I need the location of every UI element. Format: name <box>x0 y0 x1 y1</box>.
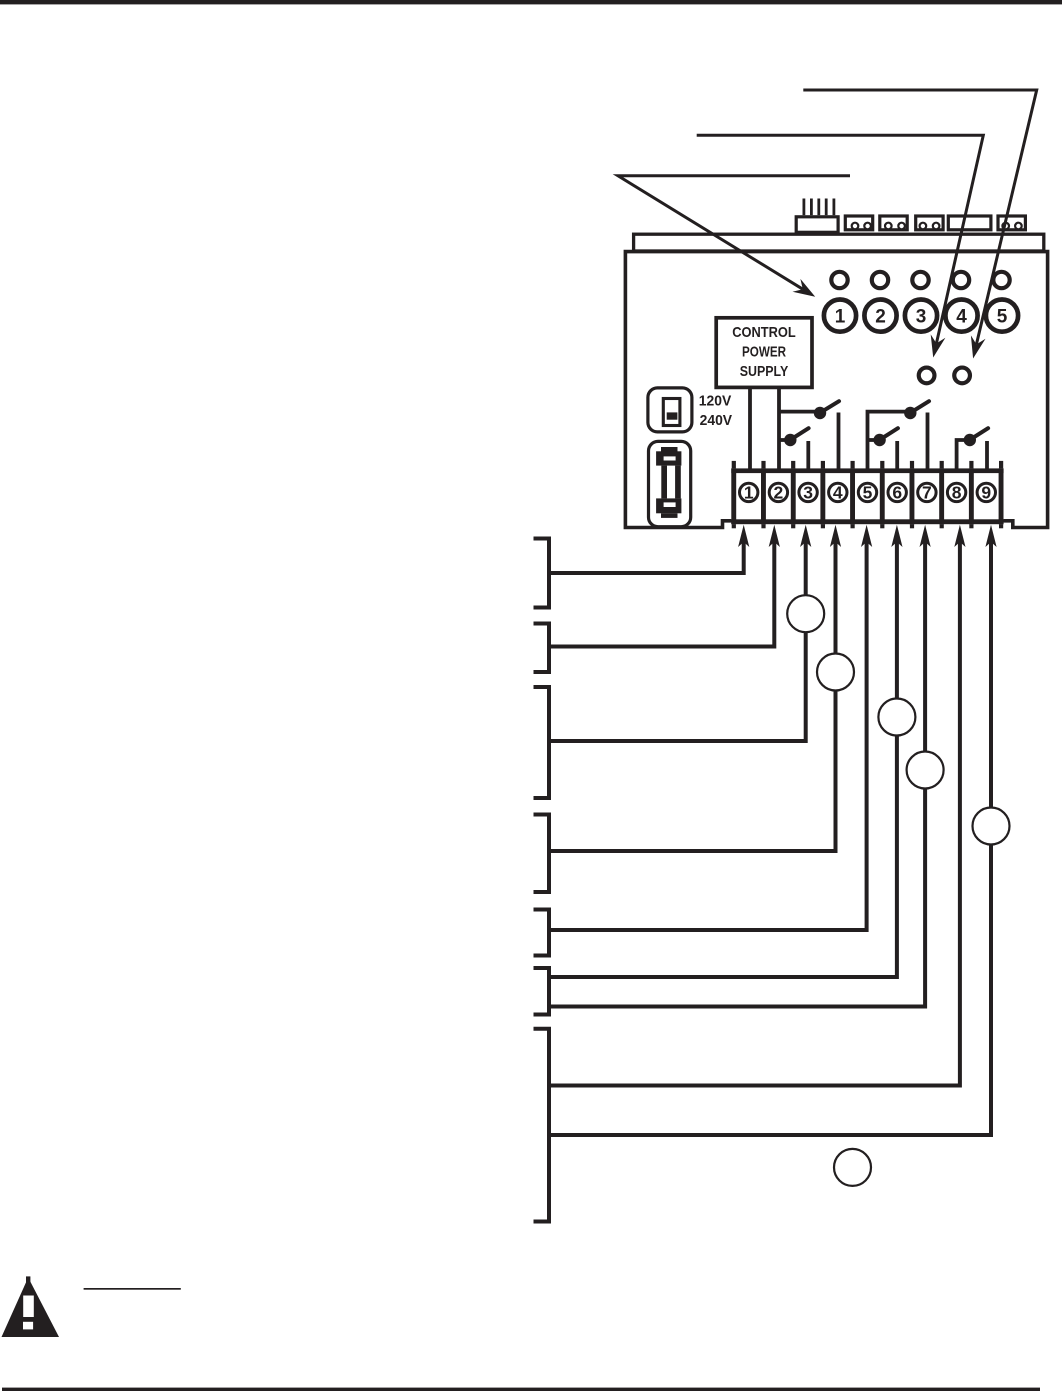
bracket 1 <box>534 539 550 608</box>
connector J6 <box>998 216 1025 230</box>
LED hole 5 <box>993 272 1009 288</box>
terminal block body <box>731 461 1003 528</box>
device top edge strip <box>634 234 1044 251</box>
arrow into terminal 3 <box>800 525 811 547</box>
control power supply box <box>716 318 812 388</box>
svg-text:POWER: POWER <box>742 344 786 361</box>
indicator circle 5 <box>986 300 1018 332</box>
bottom page rule <box>2 1388 1040 1391</box>
arrow into terminal 2 <box>769 525 780 547</box>
connector J3 <box>880 216 907 230</box>
wire branch to switch S4 <box>868 438 880 442</box>
switch S2 <box>784 434 796 446</box>
status hole A <box>919 368 935 384</box>
svg-text:6: 6 <box>892 483 902 503</box>
svg-text:1: 1 <box>744 483 754 503</box>
svg-text:2: 2 <box>875 306 886 327</box>
wire S1 to terminal 4 <box>837 413 841 472</box>
wire to terminal 7 <box>549 540 925 1007</box>
fuse cartridge <box>656 447 681 518</box>
svg-text:8: 8 <box>952 483 962 503</box>
wire branch to switch S1 <box>779 410 820 414</box>
wire to terminal 1 <box>549 540 744 573</box>
wire terminal 5 feed <box>868 412 911 471</box>
switch S3 <box>904 407 916 419</box>
LED hole 1 <box>831 272 847 288</box>
wire to terminal 6 <box>549 540 897 977</box>
voltage selector switch <box>648 388 692 432</box>
arrowhead to numbered indicators <box>793 279 816 297</box>
wire S3 to terminal 7 <box>926 413 930 472</box>
terminal 2 <box>769 483 787 501</box>
LED hole 4 <box>953 272 969 288</box>
callout circle B <box>817 654 854 691</box>
wire CPS to terminal 1 <box>748 388 752 471</box>
top page rule <box>0 0 1062 4</box>
connector J5 <box>948 216 991 230</box>
callout line to status hole B <box>803 90 1036 344</box>
svg-text:SUPPLY: SUPPLY <box>740 363 789 380</box>
terminal 7 <box>918 483 936 501</box>
wire S4 to terminal 6 <box>895 441 899 471</box>
arrow into terminal 4 <box>830 525 841 547</box>
switch S1 <box>814 407 826 419</box>
svg-text:120V: 120V <box>699 393 732 409</box>
callout line to numbered indicators <box>618 176 850 289</box>
arrow into terminal 7 <box>920 525 931 547</box>
switch S4 <box>873 434 885 446</box>
terminal 9 <box>977 483 995 501</box>
wire S5 to terminal 9 <box>985 441 989 471</box>
LED hole 2 <box>872 272 888 288</box>
wire to terminal 5 <box>549 540 867 930</box>
wire S2 to terminal 3 <box>806 441 810 471</box>
callout circle A <box>787 595 824 632</box>
callout circle F <box>834 1149 871 1186</box>
wire to terminal 2 <box>549 540 774 647</box>
arrowhead to status hole B <box>971 335 986 358</box>
callout circle D <box>907 752 944 789</box>
arrow into terminal 8 <box>954 525 965 547</box>
svg-text:2: 2 <box>774 483 784 503</box>
LED hole 3 <box>912 272 928 288</box>
device enclosure outline <box>625 252 1047 528</box>
svg-text:9: 9 <box>981 483 991 503</box>
wire to terminal 4 <box>549 540 836 851</box>
label CONTROL POWER SUPPLY <box>732 324 796 380</box>
arrow into terminal 5 <box>861 525 872 547</box>
fuse holder <box>649 441 691 526</box>
connector J2 <box>845 216 872 230</box>
callout circle C <box>878 699 915 736</box>
switch S5 <box>964 434 976 446</box>
wire CPS to terminal 2 (feed for S1 S2) <box>777 388 781 471</box>
svg-text:3: 3 <box>803 483 813 503</box>
callout line to status hole A <box>697 135 984 343</box>
indicator circle 2 <box>864 300 896 332</box>
indicator circle 4 <box>945 300 977 332</box>
callout circle E <box>973 808 1010 845</box>
bracket 4 <box>534 815 550 893</box>
terminal 3 <box>799 483 817 501</box>
svg-text:5: 5 <box>863 483 873 503</box>
terminal 1 <box>740 483 758 501</box>
terminal 6 <box>888 483 906 501</box>
indicator circle 3 <box>905 300 937 332</box>
wire to terminal 9 <box>549 540 991 1135</box>
svg-text:4: 4 <box>956 306 967 327</box>
connector J1 (5-pin header) <box>796 199 838 233</box>
svg-text:3: 3 <box>916 306 927 327</box>
status hole B <box>954 368 970 384</box>
arrowhead to status hole A <box>931 334 946 357</box>
svg-text:1: 1 <box>835 306 846 327</box>
bracket 3 <box>534 687 550 798</box>
svg-text:5: 5 <box>997 306 1008 327</box>
bracket 6 <box>534 968 550 1015</box>
terminal 8 <box>947 483 965 501</box>
wire branch to switch S2 <box>779 438 790 442</box>
svg-text:240V: 240V <box>700 413 733 429</box>
arrow into terminal 6 <box>891 525 902 547</box>
warning triangle <box>2 1276 60 1337</box>
blank word underline <box>84 1288 181 1290</box>
terminal 4 <box>829 483 847 501</box>
bracket 5 <box>534 910 550 956</box>
connector J4 <box>916 216 943 230</box>
bracket 2 <box>534 624 550 673</box>
bracket 7 <box>534 1029 550 1222</box>
svg-text:CONTROL: CONTROL <box>732 324 796 341</box>
svg-text:4: 4 <box>833 483 843 503</box>
arrow into terminal 1 <box>738 525 749 547</box>
indicator circle 1 <box>824 300 856 332</box>
wire terminal 8 feed <box>957 440 970 471</box>
wire to terminal 3 <box>549 540 806 741</box>
svg-text:7: 7 <box>922 483 932 503</box>
arrow into terminal 9 <box>985 525 996 547</box>
label 120V 240V <box>699 393 733 429</box>
wire to terminal 8 <box>549 540 960 1086</box>
terminal 5 <box>858 483 876 501</box>
